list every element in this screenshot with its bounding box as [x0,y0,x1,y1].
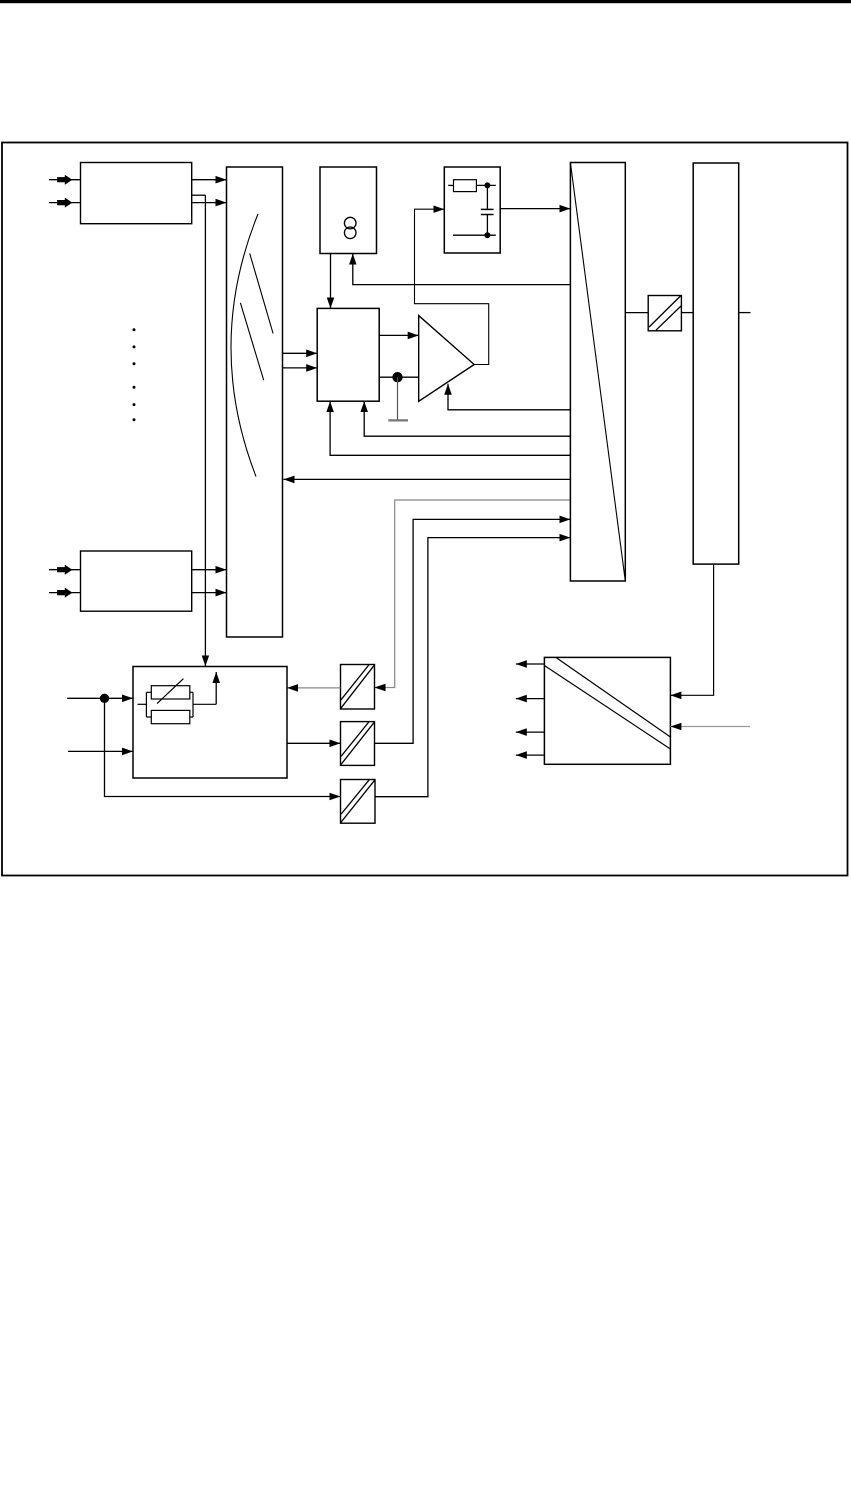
wire transformer to control logic [330,254,332,309]
transformer box (DC converter) [320,167,377,254]
wire ADC to transformer [353,254,571,285]
wire ADC to op-amp gain input [448,384,570,410]
backplane stub 1 [739,312,751,314]
wire MUX to control in1 [283,352,318,354]
wire junction to opto3 [105,698,341,796]
junction dot (RC top) [484,182,490,188]
wire vertical to compensation box [204,195,206,666]
wire A output stub [192,194,206,196]
wire compensation to opto2 [287,742,341,744]
diagram frame [2,143,848,876]
wire control to op-amp plus [379,334,419,336]
RC filter box [444,167,500,253]
input arrow B2 [49,588,80,598]
wire ADC to opto1 [375,500,571,688]
wire interface to output isolation box [670,564,713,695]
wire opto2 to ADC [375,519,571,743]
wire opto4 to interface box [681,312,693,314]
wire A to MUX ch1 [192,202,227,204]
wire ADC to opto4 [625,312,648,314]
junction dot (op-amp input) [392,372,402,382]
control logic box [317,308,379,401]
wire ADC to control cal2 [330,401,570,455]
wire opto1 to compensation box [287,687,341,689]
output arrow 4 [516,754,545,756]
resistor R [448,180,496,192]
input arrow A1 [49,175,80,185]
backplane stub 2 [670,726,750,728]
RC bottom wire [453,234,496,236]
output arrow 2 [516,698,545,700]
input wire M plus [67,697,133,699]
ground [388,377,408,420]
compensation box [133,667,287,779]
ADC block [570,163,625,582]
opto-isolator 3 [341,780,376,824]
wire opto3 to ADC [375,538,570,797]
input block B (bottom left) [81,551,192,611]
wire control to op-amp minus [379,376,419,378]
channel dots [133,328,136,421]
trimmer network [138,679,217,724]
adjustment arrow [215,672,217,704]
junction dot (RC bottom) [484,232,490,238]
transformer windings [344,217,356,238]
wire op-amp output to RC input [415,209,489,364]
input arrow A2 [49,198,80,208]
page top rule [0,0,851,3]
output isolation box [544,657,670,764]
output arrow 3 [516,731,545,733]
interface box (backplane) [693,163,739,564]
wire RC to ADC [500,208,570,210]
op-amp U1 [419,316,475,402]
output arrow 1 [516,663,545,665]
wire B to MUX chN-1 [192,569,227,571]
wire ADC to control cal1 [364,401,570,436]
wire B to MUX chN [192,592,227,594]
opto-isolator 2 [341,722,375,766]
input wire M minus [68,750,133,752]
input arrow B1 [49,565,80,575]
wire A to MUX ch0 [192,179,227,181]
wire MUX to control in2 [283,367,318,369]
opto-isolator 4 [648,296,681,331]
junction dot (input) [100,694,109,703]
opto-isolator 1 [341,665,375,710]
input block A (top left) [81,163,192,224]
analog multiplexer MUX [227,167,283,637]
capacitor C [481,185,494,235]
wire ADC to MUX address [284,478,571,480]
